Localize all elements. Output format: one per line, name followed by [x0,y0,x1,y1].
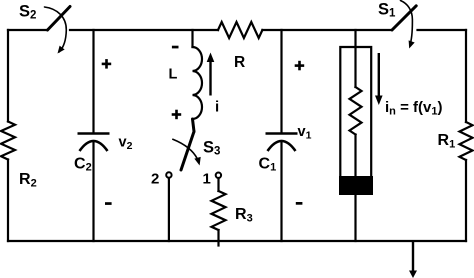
label + (v2) [102,59,112,69]
capacitor C2 top plate [78,132,110,135]
wire terminal 1 down [217,178,219,191]
ground [409,241,417,278]
wire C1 branch bottom [280,141,282,241]
current arrow in [375,53,383,105]
svg-text:R: R [234,54,245,71]
svg-text:1: 1 [203,170,211,187]
switch S2 blade [48,7,71,31]
wire nonlinear branch top [354,30,356,87]
switch S1 blade [392,6,416,30]
wire bottom rail [8,240,466,242]
svg-text:2: 2 [151,170,159,187]
label - (L) [172,46,179,49]
switch S3 arrow [173,139,203,166]
capacitor C1 bottom plate [268,141,296,151]
capacitor C2 bottom plate [80,141,108,151]
label - (v1) [296,202,303,205]
resistor R2 [1,122,15,160]
wire top rail far right [418,29,467,31]
wire right vertical bottom [465,160,467,241]
nonlinear resistor inside box [350,87,362,135]
resistor R1 [460,122,473,160]
wire terminal 2 down [168,178,170,241]
resistor R [218,22,262,38]
resistor R3 [212,191,226,230]
wire top rail right [262,29,392,31]
wire left vertical bottom [7,160,9,242]
switch S1 closing arrow [401,1,415,50]
wire resistor to electrode [354,135,356,179]
S3 terminal 1 [216,173,221,178]
wire C2 branch bottom [92,141,94,241]
wire left vertical top [7,30,9,122]
switch S2 closing arrow [45,7,67,55]
nonlinear element box [340,47,371,177]
wire top rail middle [70,29,218,31]
wire L to switch S3 [193,119,195,132]
current arrow i [207,53,215,96]
wire inductor branch top [191,30,193,47]
svg-text:i: i [215,99,219,116]
capacitor C1 top plate [266,132,298,135]
wire right vertical top [465,30,467,122]
switch S3 blade [181,132,194,171]
label - (v2) [105,202,112,205]
svg-text:L: L [169,67,178,83]
label + (v1) [295,61,305,71]
label + (L) [172,110,182,120]
wire nonlinear branch bottom [354,195,356,241]
S3 terminal 2 [166,172,171,177]
wire R3 bottom [217,230,219,246]
inductor L [193,47,203,119]
wire C2 branch top [92,30,94,133]
electrode black rectangle [339,176,373,195]
wire C1 branch top [280,30,282,133]
wire top rail left [8,29,48,31]
